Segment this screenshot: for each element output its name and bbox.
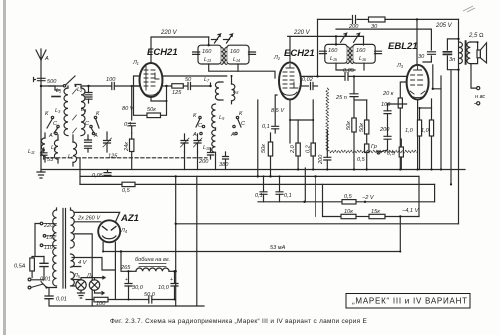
- svg-text:Л₄: Л₄: [120, 228, 128, 234]
- svg-text:ECH21: ECH21: [284, 48, 315, 59]
- svg-text:50к: 50к: [147, 107, 156, 113]
- svg-text:24к: 24к: [124, 142, 130, 152]
- svg-text:0,5: 0,5: [357, 157, 366, 163]
- svg-text:80 V: 80 V: [122, 106, 135, 112]
- svg-text:100: 100: [106, 77, 116, 83]
- svg-text:380: 380: [219, 162, 229, 168]
- svg-text:Л₆: Л₆: [86, 273, 94, 279]
- svg-text:53: 53: [47, 157, 54, 163]
- svg-text:ECH21: ECH21: [147, 47, 178, 58]
- svg-text:0,01: 0,01: [40, 277, 51, 283]
- svg-text:3п: 3п: [449, 57, 455, 63]
- svg-text:50к: 50к: [261, 144, 267, 153]
- svg-text:1,0: 1,0: [421, 128, 430, 134]
- svg-text:200: 200: [348, 24, 359, 30]
- svg-text:L₄: L₄: [81, 107, 87, 113]
- svg-text:0,1: 0,1: [262, 124, 270, 130]
- svg-text:150: 150: [46, 235, 56, 241]
- svg-text:220 V: 220 V: [293, 30, 311, 36]
- svg-text:200: 200: [318, 154, 324, 165]
- svg-text:L₁₃: L₁₃: [204, 57, 212, 63]
- svg-text:L₂: L₂: [77, 87, 83, 93]
- svg-text:0,01: 0,01: [56, 297, 67, 303]
- svg-text:2,0: 2,0: [290, 144, 296, 154]
- svg-text:200: 200: [198, 159, 209, 165]
- svg-text:L₁₀: L₁₀: [203, 145, 211, 151]
- svg-text:1,0: 1,0: [405, 128, 414, 134]
- svg-text:А: А: [93, 133, 98, 139]
- svg-text:+: +: [170, 277, 173, 283]
- svg-text:EBL21: EBL21: [388, 41, 418, 52]
- svg-text:205 V: 205 V: [435, 23, 453, 29]
- svg-text:A: A: [44, 56, 49, 62]
- svg-text:L₉: L₉: [219, 115, 225, 121]
- svg-text:20 к: 20 к: [382, 91, 394, 97]
- svg-text:50к: 50к: [346, 121, 352, 130]
- svg-text:50: 50: [185, 77, 192, 83]
- svg-text:110: 110: [44, 245, 54, 251]
- svg-text:8,5 V: 8,5 V: [271, 108, 285, 114]
- svg-text:30: 30: [371, 24, 378, 30]
- svg-text:Гр: Гр: [371, 144, 377, 150]
- svg-text:А: А: [230, 132, 235, 138]
- svg-text:160: 160: [356, 48, 366, 54]
- svg-text:220 V: 220 V: [160, 30, 178, 36]
- svg-text:L₁₁: L₁₁: [28, 149, 35, 155]
- svg-text:30,0: 30,0: [132, 285, 144, 291]
- svg-text:0,02: 0,02: [302, 77, 314, 83]
- svg-text:„МАРЕК“ III и IV ВАРИАНТ: „МАРЕК“ III и IV ВАРИАНТ: [352, 297, 468, 306]
- svg-text:0,5: 0,5: [344, 194, 353, 200]
- svg-text:160: 160: [328, 48, 338, 54]
- svg-text:Л₂: Л₂: [273, 55, 281, 61]
- svg-text:L₈: L₈: [233, 89, 239, 95]
- svg-text:Л₅: Л₅: [73, 273, 81, 279]
- svg-text:L₁₄: L₁₄: [233, 57, 241, 63]
- svg-text:−4,1 V: −4,1 V: [402, 208, 420, 214]
- svg-text:160: 160: [230, 49, 240, 55]
- svg-text:25 n: 25 n: [335, 95, 347, 101]
- svg-text:0,05: 0,05: [92, 173, 104, 179]
- svg-text:0,1: 0,1: [255, 193, 263, 199]
- svg-text:0,5: 0,5: [387, 151, 396, 157]
- svg-text:Фиг. 2.3.7. Схема на радиоприе: Фиг. 2.3.7. Схема на радиоприемника „Мар…: [110, 318, 367, 325]
- svg-text:Л₃: Л₃: [396, 63, 404, 69]
- svg-text:2x 260 V: 2x 260 V: [77, 216, 101, 222]
- svg-text:0,5A: 0,5A: [14, 264, 26, 270]
- svg-text:L₆: L₆: [68, 154, 74, 160]
- svg-text:0,1: 0,1: [284, 193, 292, 199]
- svg-text:125: 125: [108, 154, 118, 160]
- svg-text:Л₁: Л₁: [132, 60, 139, 66]
- svg-text:500: 500: [47, 79, 57, 85]
- svg-text:160: 160: [202, 49, 212, 55]
- svg-text:AZ1: AZ1: [120, 213, 139, 224]
- svg-text:100: 100: [96, 301, 106, 307]
- svg-text:А: А: [192, 132, 197, 138]
- svg-text:−2 V: −2 V: [362, 195, 375, 201]
- svg-text:2,5 Ω: 2,5 Ω: [468, 33, 484, 39]
- svg-text:265: 265: [120, 265, 131, 271]
- svg-text:200: 200: [379, 127, 390, 133]
- svg-text:15к: 15к: [371, 209, 380, 215]
- svg-text:н вс: н вс: [475, 94, 485, 100]
- svg-text:53 мА: 53 мА: [270, 245, 286, 251]
- svg-text:L₃: L₃: [55, 108, 61, 114]
- svg-text:0,05: 0,05: [343, 68, 355, 74]
- svg-text:L₁₅: L₁₅: [330, 56, 338, 62]
- svg-text:0,1: 0,1: [124, 122, 132, 128]
- svg-text:4 V: 4 V: [78, 260, 88, 266]
- svg-text:50к: 50к: [359, 123, 365, 132]
- svg-text:0,2: 0,2: [306, 144, 312, 153]
- svg-text:30: 30: [418, 54, 425, 60]
- svg-text:L₁: L₁: [56, 88, 61, 94]
- svg-text:А: А: [48, 133, 53, 139]
- svg-text:50,0: 50,0: [144, 292, 156, 298]
- svg-text:220: 220: [43, 223, 54, 229]
- svg-text:0,5: 0,5: [122, 188, 131, 194]
- svg-text:+: +: [125, 277, 128, 283]
- svg-text:L₁₆: L₁₆: [359, 56, 367, 62]
- svg-text:10к: 10к: [344, 209, 353, 215]
- svg-text:бобина на вг.: бобина на вг.: [135, 257, 170, 263]
- svg-text:125: 125: [172, 90, 182, 96]
- svg-text:100: 100: [381, 102, 391, 108]
- svg-text:L₅: L₅: [51, 145, 57, 151]
- svg-text:10,0: 10,0: [158, 285, 170, 291]
